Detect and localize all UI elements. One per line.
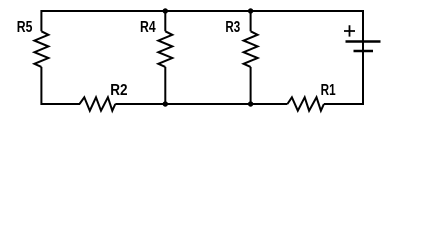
wire R3 branch bottom lead — [250, 67, 252, 105]
battery B1 long plate (positive) — [346, 40, 381, 43]
svg-text:R2: R2 — [110, 82, 127, 99]
wire bottom rail right segment — [324, 103, 363, 105]
svg-text:R1: R1 — [321, 82, 336, 99]
node junction dot bottom R4 — [163, 101, 168, 106]
node junction dot bottom R3 — [248, 101, 253, 106]
resistor R1 — [287, 97, 324, 110]
wire left branch bottom (R5 bottom lead) — [40, 67, 42, 105]
node junction dot top R3 — [248, 8, 253, 13]
svg-text:R3: R3 — [225, 19, 240, 36]
wire R4 branch top lead — [164, 10, 166, 31]
wire R4 branch bottom lead — [164, 67, 166, 105]
svg-text:R5: R5 — [17, 19, 33, 36]
wire left branch top (R5 top lead) — [40, 10, 42, 31]
battery B1 short plate (negative) — [354, 50, 374, 53]
resistor R2 — [80, 97, 116, 110]
wire right branch (battery branch) — [362, 10, 364, 105]
label + (battery polarity) — [344, 25, 355, 36]
svg-text:R4: R4 — [140, 19, 156, 36]
wire bottom rail middle segment — [115, 103, 287, 105]
resistor R5 — [34, 31, 48, 67]
resistor R3 — [244, 31, 258, 67]
resistor R4 — [158, 31, 172, 67]
wire bottom rail left segment — [41, 103, 80, 105]
node junction dot top R4 — [163, 8, 168, 13]
wire top rail — [41, 10, 363, 12]
wire R3 branch top lead — [250, 10, 252, 31]
